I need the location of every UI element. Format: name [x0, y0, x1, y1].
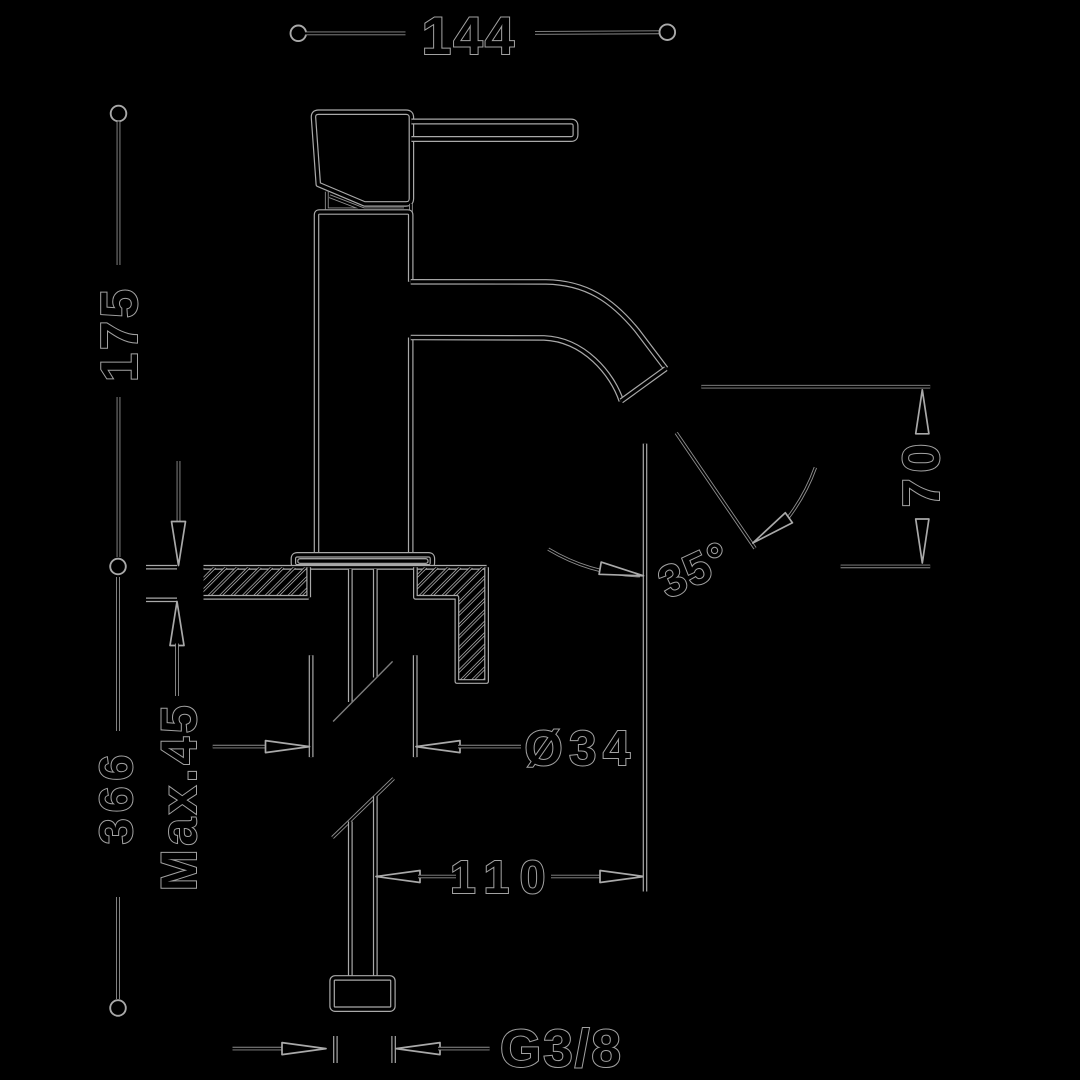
dim 110 left line — [418, 875, 456, 879]
spout inner curve — [411, 338, 622, 401]
dim O34 right line — [458, 745, 521, 749]
dim 175 lower line — [117, 397, 121, 557]
dim 35deg label — [650, 531, 739, 609]
dim 366 label — [90, 749, 142, 845]
dim 70 label — [893, 438, 951, 508]
dim 366 lower line — [116, 897, 120, 999]
dim 144 left end dot — [291, 26, 307, 42]
dim Max45 lower line — [175, 644, 179, 697]
lower break diagonal — [333, 779, 394, 838]
spout tip vertical extension line — [643, 444, 648, 892]
dim G38 right arrow — [396, 1043, 440, 1055]
dim Max45 upper tick — [146, 565, 177, 570]
mounting nut — [332, 978, 393, 1009]
counter right slab hatching — [300, 567, 597, 681]
angle arc left arrow — [599, 562, 643, 576]
dim 366 bottom dot — [110, 1000, 126, 1016]
rod left edge — [348, 822, 353, 978]
dim O34 right arrow — [416, 741, 460, 753]
dim 144 right end dot — [660, 24, 676, 40]
dim 110 left arrow — [376, 871, 420, 883]
dim Max45 label — [151, 702, 207, 892]
dim 144 right line — [535, 30, 660, 34]
dim Max45 upper line — [177, 461, 181, 524]
angle arc right arrow — [753, 513, 793, 543]
hole extension line left — [309, 655, 314, 757]
dim 70 down arrow — [916, 519, 929, 563]
dim Max45 lower tick — [146, 597, 177, 602]
dim 70 bottom reference line — [841, 565, 931, 569]
upper break diagonal — [333, 661, 393, 721]
base flange inner lip — [298, 559, 428, 564]
dim 70 up arrow — [916, 390, 929, 434]
faucet lever bar — [411, 122, 575, 140]
angle arc left — [548, 549, 640, 576]
svg-text:Max.45: Max.45 — [151, 702, 207, 892]
dim 110 right arrow — [600, 871, 644, 883]
dim G38 right line — [438, 1047, 490, 1051]
dim G38 left line — [233, 1047, 285, 1051]
dim 110 right line — [551, 875, 601, 879]
shank left edge — [348, 569, 353, 702]
counter left slab hatching — [174, 567, 329, 597]
dim 144 label — [422, 7, 516, 66]
svg-text:175: 175 — [91, 286, 149, 382]
svg-text:110: 110 — [450, 851, 556, 903]
dim O34 left arrow — [266, 741, 310, 753]
dim 110 label — [450, 851, 556, 903]
counter left slab outline — [204, 567, 309, 597]
dim O34 label — [525, 722, 637, 776]
shank right edge — [373, 569, 378, 678]
svg-text:G3/8: G3/8 — [500, 1020, 623, 1079]
dim 144 left line — [305, 32, 406, 36]
dim O34 left line — [213, 745, 268, 749]
dim G38 right tick — [391, 1036, 396, 1063]
svg-text:144: 144 — [422, 7, 516, 66]
spout outer curve — [411, 282, 666, 369]
dim Max45 up arrow — [170, 602, 184, 646]
svg-text:366: 366 — [90, 749, 142, 845]
rod right edge — [373, 797, 378, 978]
dim 175 label — [91, 286, 149, 382]
faucet body column — [317, 212, 411, 555]
dim 175 top dot — [111, 106, 127, 122]
angle arc right — [787, 468, 815, 519]
hole extension line right — [413, 655, 418, 757]
faucet handle cartridge head — [313, 112, 411, 204]
counter top line — [204, 565, 487, 570]
svg-text:Ø34: Ø34 — [525, 722, 637, 776]
base flange outer — [293, 555, 432, 567]
spout axis 35deg line — [676, 433, 755, 548]
dim G38 left tick — [333, 1036, 338, 1063]
faucet collar joint — [327, 192, 411, 212]
spout tip face — [621, 369, 666, 401]
dim 366 upper line — [116, 577, 120, 731]
dim Max45 down arrow — [172, 522, 186, 566]
counter right slab outline — [415, 567, 486, 681]
dim 175/366 middle dot — [110, 559, 126, 575]
svg-text:70: 70 — [893, 438, 951, 508]
dim G38 label — [500, 1020, 623, 1079]
dim G38 left arrow — [282, 1043, 326, 1055]
dim 175 upper line — [117, 122, 121, 266]
dim 70 top reference line — [701, 385, 930, 389]
